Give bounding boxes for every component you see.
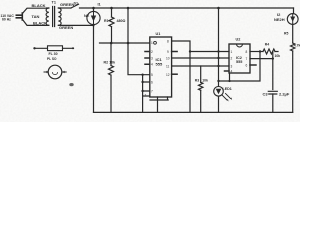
- svg-text:GREEN: GREEN: [60, 2, 74, 7]
- svg-text:I1: I1: [98, 3, 101, 7]
- svg-text:NE2H: NE2H: [274, 17, 285, 22]
- svg-text:6: 6: [246, 64, 248, 68]
- svg-text:2: 2: [151, 50, 153, 54]
- svg-text:NE: NE: [84, 14, 90, 18]
- svg-text:555: 555: [156, 62, 163, 67]
- svg-text:PL SO: PL SO: [47, 57, 57, 61]
- svg-text:8: 8: [246, 50, 248, 54]
- svg-text:4: 4: [231, 70, 233, 74]
- svg-text:R3: R3: [195, 78, 199, 82]
- svg-text:BLACK: BLACK: [32, 3, 46, 8]
- svg-text:4.7k: 4.7k: [294, 43, 300, 47]
- svg-text:10k: 10k: [202, 78, 208, 82]
- svg-text:TAN: TAN: [32, 14, 40, 19]
- svg-text:1: 1: [151, 41, 153, 45]
- svg-text:4: 4: [151, 63, 153, 67]
- svg-text:12: 12: [166, 73, 170, 77]
- svg-text:10: 10: [166, 57, 170, 61]
- svg-text:3: 3: [151, 57, 153, 61]
- svg-text:480Ω: 480Ω: [117, 19, 126, 23]
- svg-text:2: 2: [231, 57, 233, 61]
- svg-text:U2: U2: [236, 38, 241, 42]
- svg-text:U1: U1: [156, 32, 161, 36]
- svg-text:R4: R4: [265, 43, 269, 47]
- svg-text:6: 6: [151, 81, 153, 85]
- svg-text:R5: R5: [284, 32, 288, 36]
- svg-text:S1: S1: [74, 1, 79, 5]
- svg-text:LED1: LED1: [223, 87, 232, 91]
- svg-text:9: 9: [167, 50, 169, 54]
- svg-text:7: 7: [151, 90, 153, 94]
- svg-text:FL 30: FL 30: [49, 52, 58, 56]
- svg-text:11: 11: [166, 65, 170, 69]
- svg-text:3: 3: [231, 65, 233, 69]
- svg-text:10k: 10k: [275, 54, 281, 58]
- svg-text:C3: C3: [263, 92, 269, 97]
- svg-text:R2 10k: R2 10k: [104, 61, 116, 65]
- svg-text:5: 5: [151, 73, 153, 77]
- svg-text:8: 8: [167, 40, 169, 44]
- svg-text:T1: T1: [52, 0, 56, 4]
- svg-text:1: 1: [231, 50, 233, 54]
- svg-text:R1: R1: [104, 19, 109, 23]
- svg-text:60 Hz: 60 Hz: [2, 17, 11, 21]
- svg-text:GREEN: GREEN: [59, 25, 73, 30]
- svg-text:555: 555: [236, 60, 242, 64]
- svg-text:BLACK: BLACK: [33, 21, 47, 26]
- svg-text:7: 7: [145, 93, 147, 97]
- svg-text:7: 7: [246, 57, 248, 61]
- svg-text:2.2µF: 2.2µF: [279, 92, 290, 97]
